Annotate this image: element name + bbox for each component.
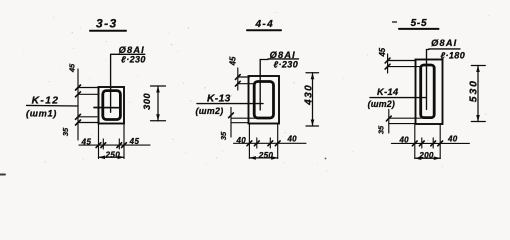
bottom extension lines section 3-3 (99, 124, 125, 159)
scan speckle noise (12, 11, 490, 172)
section title 5-5 (393, 18, 439, 29)
svg-text:ℓ·230: ℓ·230 (273, 59, 298, 69)
stirrup frame K-13 section 4-4 (254, 82, 273, 119)
bottom dim line 40/40 section 4-4 (234, 142, 307, 144)
svg-text:K-14: K-14 (377, 87, 399, 97)
svg-text:40: 40 (236, 136, 247, 145)
svg-text:5-5: 5-5 (411, 18, 428, 29)
stray scan mark dot (325, 158, 327, 160)
leader line from K-14 into stirrup (370, 97, 426, 99)
svg-text:3-3: 3-3 (96, 17, 118, 31)
left dimension column bottom section 4-4 (231, 108, 255, 138)
bottom dim line 40/40 section 5-5 (391, 142, 469, 144)
outer concrete rect section 4-4 (249, 76, 280, 124)
bottom extension lines section 5-5 (415, 124, 440, 159)
label Ø8AI l-180 section 5-5 (429, 38, 465, 60)
right dimension 430 section 4-4 (306, 73, 319, 126)
svg-text:200: 200 (418, 151, 434, 160)
outer concrete rect section 5-5 (416, 60, 443, 125)
svg-text:45: 45 (228, 56, 237, 66)
svg-text:40: 40 (447, 134, 458, 143)
label K-14 (368, 87, 399, 109)
svg-text:(шт1): (шт1) (26, 108, 57, 118)
stray scan mark bottom-left (0, 174, 5, 176)
svg-text:4-4: 4-4 (254, 19, 274, 30)
outer concrete rect section 3-3 (99, 87, 125, 124)
label Ø8AI l-230 section 3-3 (111, 45, 146, 65)
bottom dim line 200 section 5-5 (415, 157, 440, 159)
tick marks left column 3-3 (76, 85, 81, 125)
leader line from K-13 into stirrup (197, 103, 263, 105)
svg-text:35: 35 (61, 127, 70, 136)
svg-text:45: 45 (81, 137, 92, 146)
leader line to stirrup section 5-5 (427, 50, 429, 110)
bottom extension lines section 4-4 (249, 124, 277, 159)
svg-text:ℓ·180: ℓ·180 (440, 51, 465, 61)
section title 3-3 (90, 17, 126, 31)
svg-text:45: 45 (67, 63, 76, 73)
label K-12 (26, 95, 59, 118)
svg-text:(шт2): (шт2) (368, 99, 395, 109)
left dimension column bottom section 5-5 (389, 110, 421, 134)
left dimension column top section 5-5 (388, 54, 421, 73)
leader line to stirrup section 4-4 (260, 60, 268, 111)
bottom dim line 250 section 4-4 (249, 157, 277, 159)
svg-text:45: 45 (378, 47, 387, 57)
svg-text:250: 250 (105, 151, 121, 160)
leader line from K-12 into stirrup (27, 104, 79, 107)
svg-text:(шт2): (шт2) (196, 106, 224, 116)
stirrup frame K-14 section 5-5 (421, 65, 435, 118)
bottom dim line 250 section 3-3 (99, 156, 125, 158)
left dimension column top section 4-4 (238, 68, 255, 90)
svg-text:40: 40 (398, 135, 409, 144)
bottom dim line 45/45 section 3-3 (79, 144, 150, 146)
label Ø8AI l-230 section 4-4 (268, 50, 299, 70)
right dimension 530 section 5-5 (471, 66, 485, 122)
right dimension 300 section 3-3 (151, 86, 166, 121)
svg-text:35: 35 (219, 131, 228, 140)
svg-text:35: 35 (376, 125, 385, 134)
stirrup frame K-12 section 3-3 (103, 91, 121, 120)
svg-text:530: 530 (468, 79, 479, 102)
svg-text:250: 250 (258, 151, 274, 160)
svg-text:45: 45 (129, 137, 140, 146)
svg-text:300: 300 (142, 92, 152, 109)
leader line to stirrup section 3-3 (110, 54, 112, 112)
svg-text:Ø8AI: Ø8AI (431, 38, 457, 48)
svg-text:430: 430 (303, 84, 314, 106)
label K-13 (196, 94, 231, 116)
svg-text:40: 40 (286, 135, 297, 144)
section title 4-4 (247, 19, 281, 30)
svg-text:K-12: K-12 (32, 95, 60, 106)
left dimension column section 3-3 (78, 69, 99, 140)
